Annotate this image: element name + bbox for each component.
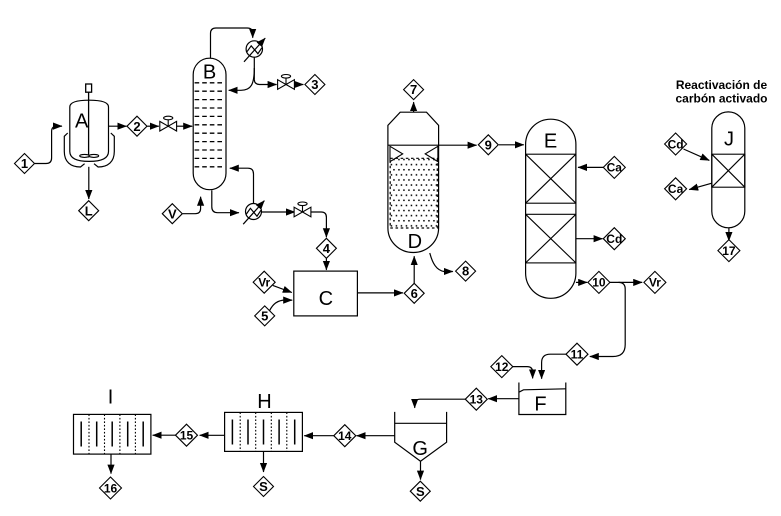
svg-text:S: S — [416, 484, 425, 499]
vessel A jacket — [64, 133, 114, 167]
svg-text:L: L — [85, 203, 93, 218]
stream diamond 4 — [316, 238, 336, 258]
svg-text:14: 14 — [338, 429, 352, 443]
column B trays (dashed) — [195, 83, 225, 167]
settler tank G — [395, 412, 447, 461]
svg-text:9: 9 — [485, 137, 492, 152]
stream diamond 11 — [566, 343, 588, 365]
svg-text:Cd: Cd — [668, 137, 684, 151]
pipe: reboiler to valve V3 — [262, 211, 296, 213]
stream diamond Ca at E — [603, 156, 625, 178]
pipe: column D top to diamond 7 — [413, 102, 415, 112]
svg-text:12: 12 — [495, 360, 509, 374]
pipe: diamond 12 to tank F — [513, 367, 533, 379]
svg-text:3: 3 — [311, 77, 318, 92]
svg-text:E: E — [544, 131, 557, 153]
pipe: column E bottom to diamond 10 — [576, 281, 587, 283]
stream diamond 17 — [718, 240, 740, 262]
pipe: diamond 4 to box C — [325, 258, 327, 270]
svg-text:Vr: Vr — [258, 276, 270, 290]
pipe: diamond 5 into box C — [270, 300, 293, 311]
stream diamond 1 — [15, 154, 35, 174]
pipe: filter H to diamond S — [263, 451, 265, 472]
svg-text:V: V — [168, 206, 177, 221]
stream diamond 8 — [456, 261, 476, 281]
pipe: tank G to diamond 14 — [357, 435, 395, 437]
pipe: diamond 2 to valve V1 — [147, 125, 159, 127]
vessel A agitator motor — [86, 84, 92, 92]
filter I dotted dividers — [89, 414, 135, 454]
stream diamond 2 — [127, 116, 147, 136]
valve V3 — [294, 202, 311, 217]
svg-text:C: C — [319, 288, 333, 310]
pipe: filter H to diamond 15 — [200, 434, 225, 436]
svg-text:I: I — [108, 387, 114, 409]
svg-text:H: H — [257, 391, 271, 413]
pipe: diamond 13 to tank G — [415, 399, 466, 408]
stream diamond 10 — [588, 271, 610, 293]
filter H — [225, 412, 303, 451]
pipe: diamond 6 up into column D — [413, 256, 415, 283]
pipe: diamond 9 to column E — [499, 144, 524, 146]
stream diamond 6 — [404, 283, 424, 303]
svg-text:F: F — [534, 394, 546, 416]
packed column D body — [388, 112, 439, 252]
carbon reactivation column J — [712, 112, 745, 228]
svg-text:Reactivación de: Reactivación de — [676, 78, 768, 92]
pipe: column B overhead vapor to condenser — [211, 28, 253, 59]
pipe: reboiler return into column B — [230, 168, 254, 203]
pipe: column J to diamond Ca — [689, 183, 712, 189]
pipe: filter I to diamond 16 — [110, 454, 112, 474]
svg-text:17: 17 — [722, 244, 736, 258]
vessel A agitator shaft — [88, 92, 90, 157]
pipe: diamond Cd into column J — [684, 149, 710, 160]
column J packing section — [712, 154, 745, 187]
condenser HX1 — [244, 38, 265, 62]
svg-text:6: 6 — [411, 286, 418, 301]
column E packing section 2 — [526, 214, 576, 263]
svg-text:J: J — [724, 129, 734, 151]
svg-text:Ca: Ca — [607, 161, 623, 175]
stream diamond S under H — [254, 477, 274, 497]
pipe: stream 1 to vessel A — [35, 126, 62, 163]
pipe: column D to diamond 9 — [439, 144, 477, 146]
stream diamond Ca at J — [665, 178, 687, 200]
stream diamond 16 — [100, 477, 122, 499]
stream diamond 5 — [255, 306, 275, 326]
distillation column B — [193, 58, 226, 190]
stream diamond 7 — [404, 80, 424, 100]
svg-text:S: S — [259, 479, 268, 494]
column D corner triangles — [390, 146, 438, 161]
svg-text:2: 2 — [133, 119, 140, 134]
svg-text:11: 11 — [571, 348, 584, 362]
stream diamond 12 — [491, 356, 513, 378]
stream diamond 3 — [305, 75, 325, 95]
svg-text:16: 16 — [104, 481, 118, 495]
svg-text:15: 15 — [180, 429, 194, 443]
pipe: box C to diamond 6 — [357, 292, 403, 294]
stream diamond 13 — [465, 388, 487, 410]
column D packing (dotted) — [390, 158, 437, 228]
stream diamond 15 — [176, 424, 198, 446]
pipe: vessel A to diamond 2 — [109, 125, 127, 127]
filter I plates — [81, 422, 143, 447]
pipe: column E to diamond Cd — [576, 238, 603, 240]
vessel A impeller — [80, 154, 99, 157]
svg-text:1: 1 — [21, 156, 28, 171]
pipe: vessel A bottoms to diamond L — [88, 167, 90, 199]
stream diamond Cd at E — [603, 228, 625, 250]
pipe: column B bottoms to reboiler — [212, 190, 239, 213]
stream diamond 14 — [334, 425, 356, 447]
svg-text:Ca: Ca — [668, 182, 684, 196]
svg-text:G: G — [412, 438, 428, 460]
reboiler HX2 — [243, 201, 264, 225]
pipe: valve V2 to diamond 3 — [294, 84, 303, 86]
svg-text:13: 13 — [470, 393, 484, 407]
svg-text:7: 7 — [410, 82, 417, 97]
tank F — [519, 383, 566, 415]
pipe: tank G underflow to diamond S — [420, 461, 422, 479]
pipe: diamond Vr into box C — [273, 285, 292, 292]
stream diamond Vr right — [644, 271, 666, 293]
stream diamond V — [162, 204, 182, 224]
pipe: diamond 15 to filter I — [153, 434, 176, 436]
svg-text:10: 10 — [592, 276, 606, 290]
pipe: condenser outlet down — [253, 57, 255, 79]
valve V2 — [278, 75, 295, 90]
pipe: distillate to valve V2 — [254, 79, 276, 84]
stream diamond S under G — [410, 481, 430, 501]
svg-text:carbón activado: carbón activado — [675, 92, 767, 106]
pipe: diamond Ca into column E — [578, 166, 603, 168]
filter H dotted dividers — [240, 412, 287, 451]
pipe: diamond 11 to tank F — [542, 354, 567, 379]
svg-text:4: 4 — [323, 241, 331, 256]
reactor vessel A — [70, 100, 109, 161]
pipe: branch down to diamond 11 — [590, 282, 625, 356]
stream diamond L — [79, 201, 99, 221]
pipe: tank F to diamond 13 — [488, 398, 519, 400]
svg-text:B: B — [203, 61, 216, 83]
filter H plates — [232, 420, 294, 445]
svg-text:A: A — [75, 111, 89, 133]
pipe: column D bottom to diamond 8 — [430, 253, 453, 272]
stream diamond Cd at J — [665, 133, 687, 155]
valve V1 — [160, 116, 177, 131]
stream diamond Vr left — [253, 271, 275, 293]
pipe: diamond 10 to diamond Vr — [610, 281, 642, 283]
column E packing section 1 — [526, 154, 576, 203]
absorber column E — [526, 119, 576, 298]
pipe: valve V3 to diamond 4 — [311, 212, 327, 237]
svg-text:Vr: Vr — [649, 276, 661, 290]
stream diamond 9 — [478, 135, 498, 155]
filter I — [74, 414, 151, 454]
pipe: diamond 14 to filter H — [304, 435, 334, 437]
pipe: column J to diamond 17 — [728, 228, 730, 241]
pipe: diamond V steam into column B bottom — [183, 197, 201, 214]
svg-text:8: 8 — [462, 264, 469, 279]
pipe: reflux return into column B — [229, 68, 255, 90]
svg-text:D: D — [408, 231, 422, 253]
svg-text:Cd: Cd — [606, 232, 622, 246]
evaporator box C — [294, 271, 358, 316]
svg-text:5: 5 — [261, 309, 268, 324]
pipe: valve V1 to column B feed — [177, 125, 193, 127]
